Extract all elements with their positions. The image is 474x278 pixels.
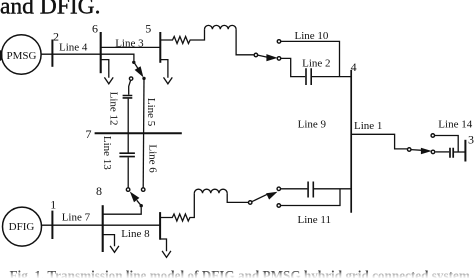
svg-text:4: 4: [351, 60, 357, 74]
svg-text:8: 8: [96, 184, 102, 198]
svg-text:5: 5: [145, 21, 151, 35]
svg-text:3: 3: [468, 133, 474, 147]
svg-text:Line 5: Line 5: [145, 98, 157, 127]
svg-text:Line 1: Line 1: [354, 120, 382, 132]
svg-text:Line 10: Line 10: [295, 30, 329, 42]
svg-text:6: 6: [92, 22, 98, 36]
svg-text:Line 6: Line 6: [147, 144, 159, 173]
svg-text:Fig. 1. Transmission line mode: Fig. 1. Transmission line model of DFIG …: [10, 268, 470, 278]
svg-text:Line 12: Line 12: [108, 92, 120, 126]
svg-text:Line 7: Line 7: [62, 212, 91, 224]
svg-text:Line 14: Line 14: [438, 119, 472, 131]
svg-text:DFIG: DFIG: [9, 221, 35, 233]
svg-text:and DFIG.: and DFIG.: [0, 0, 101, 19]
svg-text:Line 8: Line 8: [121, 228, 150, 240]
svg-text:Line 2: Line 2: [302, 58, 330, 70]
svg-text:Line 11: Line 11: [298, 214, 332, 226]
svg-text:Line 13: Line 13: [101, 136, 113, 170]
svg-text:Line 9: Line 9: [298, 119, 327, 131]
svg-text:1: 1: [50, 197, 56, 211]
svg-text:Line 4: Line 4: [59, 42, 88, 54]
svg-text:7: 7: [86, 127, 92, 141]
svg-text:Line 3: Line 3: [115, 37, 144, 49]
svg-text:PMSG: PMSG: [7, 50, 37, 62]
